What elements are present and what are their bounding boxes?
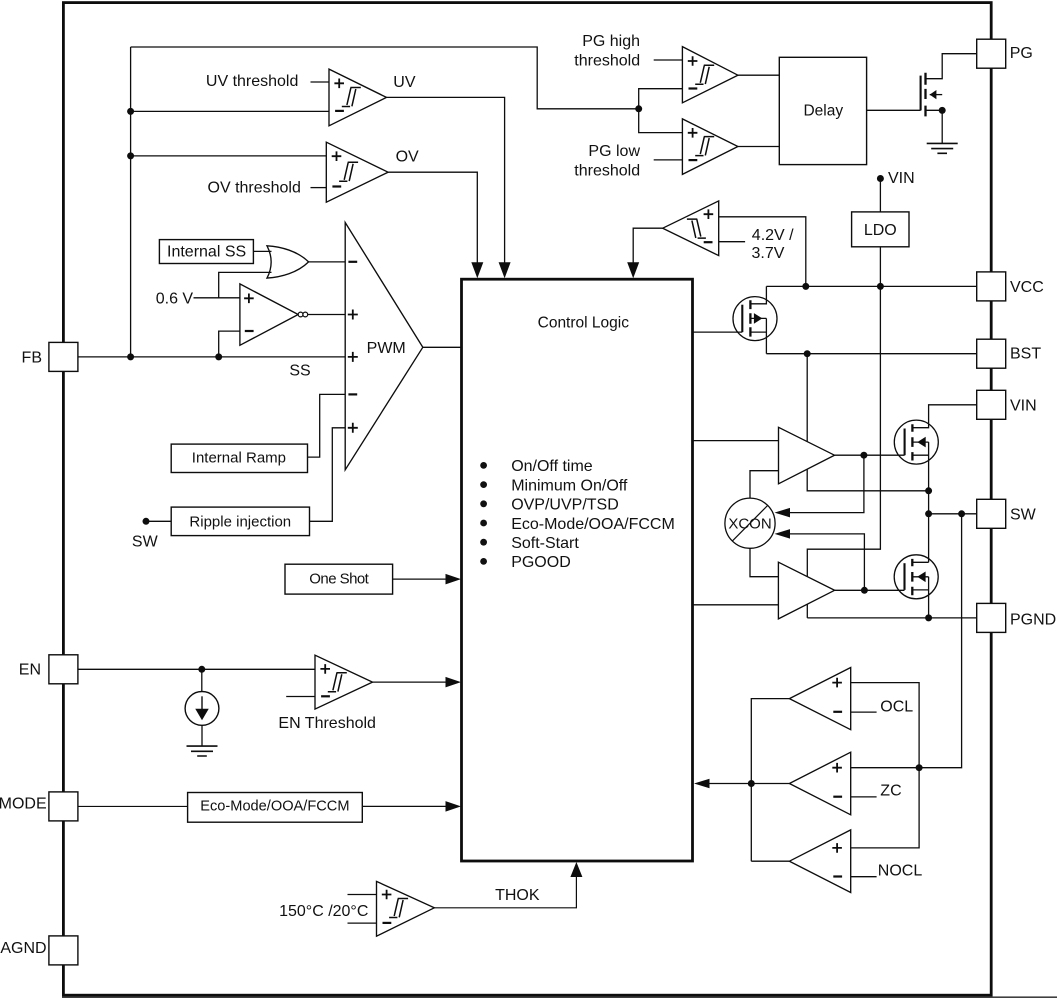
current source circle <box>185 692 219 726</box>
PWM input plus 3 <box>348 352 358 362</box>
svg-text:OV threshold: OV threshold <box>208 179 301 196</box>
OCL minus <box>833 711 842 713</box>
wire SW to Ripple injection <box>146 520 171 522</box>
wire PG high threshold stub <box>654 59 683 61</box>
svg-text:0.6 V: 0.6 V <box>156 290 194 307</box>
node FB amp junction <box>215 353 222 360</box>
wire FB to PWM <box>78 356 345 358</box>
comparator ZC <box>789 752 850 815</box>
thermal comparator minus <box>383 922 392 924</box>
page bottom edge strip <box>62 996 1057 998</box>
wire EN junction to current source <box>201 669 203 691</box>
wire XCON to low driver input <box>750 548 778 576</box>
svg-text:VCC: VCC <box>1010 279 1044 296</box>
node comparator rail junction <box>748 780 755 787</box>
svg-text:Minimum On/Off: Minimum On/Off <box>511 477 628 494</box>
wire SW rail <box>929 513 977 515</box>
current source arrow <box>201 696 203 710</box>
OCL plus <box>832 678 842 688</box>
block Control Logic <box>462 279 693 861</box>
wire thermal plus stub <box>348 894 377 896</box>
svg-text:SS: SS <box>289 363 310 380</box>
wire VCC down to low driver <box>807 286 880 576</box>
svg-text:Internal Ramp: Internal Ramp <box>192 449 286 466</box>
OV comparator minus <box>332 185 341 187</box>
ground below PG FET <box>927 143 958 153</box>
node SW terminal <box>143 518 150 525</box>
node PG input junction <box>635 105 642 112</box>
svg-text:SW: SW <box>1010 506 1037 523</box>
arrow Eco-Mode into control logic <box>446 801 462 812</box>
svg-text:UV: UV <box>393 74 416 91</box>
transistor high-side NFET <box>894 420 938 464</box>
op-amp 0.6V error comparator <box>240 284 298 345</box>
arrow OV into control logic <box>471 262 483 278</box>
wire EN to comparator <box>78 668 315 670</box>
svg-text:Soft-Start: Soft-Start <box>511 535 579 552</box>
svg-text:SW: SW <box>132 533 159 550</box>
wire VCC rail <box>766 285 976 287</box>
wire MODE to Eco-Mode box <box>78 805 188 807</box>
NOCL plus <box>832 843 842 853</box>
wire NOCL plus input <box>851 768 919 848</box>
arrow comparators into control logic <box>694 779 710 789</box>
wire top FB-to-PG run <box>131 47 639 109</box>
svg-text:VIN: VIN <box>888 170 915 187</box>
OV comparator plus <box>332 151 342 161</box>
svg-text:Eco-Mode/OOA/FCCM: Eco-Mode/OOA/FCCM <box>200 799 349 815</box>
node FB/OV junction <box>127 152 134 159</box>
wire junction to PG high minus <box>639 89 683 109</box>
wire PG low output to Delay <box>738 146 779 148</box>
PG low hysteresis symbol <box>695 137 714 156</box>
comparator OCL <box>789 668 850 730</box>
svg-text:NOCL: NOCL <box>878 863 923 880</box>
wire PG low threshold stub <box>654 159 683 161</box>
transistor low-side NFET <box>894 555 938 599</box>
wire THOK to control logic <box>434 872 576 908</box>
node bootstrap to SW node <box>925 487 932 494</box>
wire current source to ground <box>201 725 203 746</box>
node EN junction <box>198 666 205 673</box>
node SW sense junction <box>958 510 965 517</box>
svg-text:PWM: PWM <box>367 340 406 357</box>
4.2V comparator minus <box>704 241 713 243</box>
svg-text:UV threshold: UV threshold <box>206 73 299 90</box>
PG high minus <box>689 87 698 89</box>
wire EN comparator minus stub <box>286 696 315 698</box>
EN comparator hysteresis symbol <box>328 673 347 692</box>
svg-text:VIN: VIN <box>1010 397 1037 414</box>
wire junction to PG low plus <box>639 109 683 133</box>
node FB/UV junction <box>127 108 134 115</box>
pin MODE <box>49 792 78 821</box>
pin PGND <box>977 603 1006 632</box>
PG high plus <box>688 56 698 66</box>
thermal comparator plus <box>382 890 392 900</box>
svg-text:PG high: PG high <box>582 33 640 50</box>
node VCC/4.2V junction <box>802 283 809 290</box>
pin FB <box>49 342 78 371</box>
svg-text:Eco-Mode/OOA/FCCM: Eco-Mode/OOA/FCCM <box>511 516 675 533</box>
ground below current source <box>187 746 218 756</box>
comparator PG high <box>682 47 738 103</box>
arrow UV into control logic <box>499 262 511 278</box>
comparator UV (UV threshold) <box>329 69 387 126</box>
wire bootstrap BST down through driver <box>807 354 928 491</box>
wire OV comparator plus input <box>131 155 327 157</box>
svg-text:3.7V: 3.7V <box>752 245 785 262</box>
svg-text:PGND: PGND <box>1010 612 1056 629</box>
error amp output inversion bubbles <box>298 312 303 317</box>
wire control logic to low driver <box>693 604 779 606</box>
wire EN comparator output <box>373 681 449 683</box>
box Internal SS <box>159 240 253 264</box>
node PGND FET junction <box>925 614 932 621</box>
svg-text:PG low: PG low <box>588 143 640 160</box>
wire comparator output rail <box>751 699 789 862</box>
wire Internal SS to OR gate <box>253 250 271 252</box>
wire ZC minus stub <box>851 796 877 798</box>
box Internal Ramp <box>171 444 307 472</box>
wire BST rail <box>766 353 976 355</box>
pin VIN <box>977 390 1006 419</box>
UV comparator hysteresis symbol <box>342 88 361 107</box>
wire OCL plus input <box>851 683 919 768</box>
svg-text:AGND: AGND <box>0 940 46 957</box>
EN comparator plus <box>320 664 330 674</box>
arrow 4.2V into control logic <box>627 262 639 278</box>
svg-text:Internal SS: Internal SS <box>167 244 246 261</box>
comparator PG low <box>682 119 738 174</box>
wire amp minus from FB <box>219 331 240 357</box>
node SW FET junction <box>925 510 932 517</box>
PG high hysteresis symbol <box>695 65 714 84</box>
ZC minus <box>833 796 842 798</box>
svg-text:OVP/UVP/TSD: OVP/UVP/TSD <box>511 497 619 514</box>
node low driver output junction <box>861 587 868 594</box>
pin VCC <box>977 272 1006 301</box>
list control logic functions <box>480 462 487 469</box>
wire Eco-Mode to control logic <box>362 805 448 807</box>
box Delay <box>779 57 866 164</box>
node ZC plus junction <box>916 764 923 771</box>
driver high-side buffer <box>779 427 835 484</box>
pin SW <box>977 499 1006 528</box>
svg-text:EN Threshold: EN Threshold <box>278 715 376 732</box>
wire comparators to control logic <box>706 783 751 785</box>
wire 0.6V riser to OR gate input <box>219 272 272 297</box>
pin BST <box>977 339 1006 368</box>
UV comparator minus <box>335 110 344 112</box>
node high driver output junction <box>860 452 867 459</box>
error amp plus <box>244 294 254 304</box>
node BST bootstrap junction <box>804 350 811 357</box>
box LDO <box>852 212 909 247</box>
wire low gate node to XCON <box>777 534 864 590</box>
wire OR gate output to PWM minus <box>309 261 346 263</box>
ZC plus <box>832 763 842 773</box>
wire OV output to control logic <box>388 172 477 265</box>
wire SW sense to comparators <box>851 514 962 768</box>
arrow One Shot into control logic <box>446 574 462 585</box>
arrow THOK into control logic <box>570 862 582 877</box>
svg-text:THOK: THOK <box>495 887 540 904</box>
EN comparator minus <box>321 695 330 697</box>
svg-text:Ripple injection: Ripple injection <box>189 513 291 530</box>
thermal comparator hysteresis symbol <box>389 899 408 918</box>
wire LDO to VCC rail <box>879 247 881 287</box>
svg-text:LDO: LDO <box>864 222 897 239</box>
svg-text:Delay: Delay <box>803 102 843 119</box>
node VCC/LDO junction <box>877 283 884 290</box>
UV comparator plus <box>334 79 344 89</box>
svg-text:PGOOD: PGOOD <box>511 554 571 571</box>
wire Delay output to PG FET gate <box>867 109 921 111</box>
4.2V comparator hysteresis symbol <box>687 219 706 238</box>
svg-text:On/Off time: On/Off time <box>511 458 593 475</box>
svg-text:BST: BST <box>1010 345 1041 362</box>
svg-text:XCON: XCON <box>728 515 771 532</box>
PWM input plus 2 <box>348 310 358 320</box>
pin PG <box>977 39 1006 68</box>
comparator NOCL <box>789 830 850 893</box>
transistor PG open-drain NFET <box>920 76 922 111</box>
wire SW down to low FET drain <box>928 514 930 563</box>
comparator OV (OV threshold) <box>326 142 388 202</box>
PWM input minus 1 <box>348 261 357 263</box>
wire high driver output to gate <box>835 454 905 456</box>
svg-text:threshold: threshold <box>574 52 640 69</box>
wire OV threshold input stub <box>311 187 327 189</box>
arrow into XCON upper <box>775 508 791 517</box>
wire UV comparator minus input <box>131 110 329 112</box>
4.2V comparator plus <box>704 209 714 219</box>
wire VCC FET gate from control logic <box>693 331 743 333</box>
svg-text:FB: FB <box>22 349 42 366</box>
wire PG high output to Delay <box>738 74 779 76</box>
svg-text:PG: PG <box>1010 45 1033 62</box>
wire Ripple injection to PWM plus <box>310 428 346 522</box>
wire 4.2V output to control logic <box>633 228 663 265</box>
driver low-side buffer <box>778 562 834 619</box>
svg-text:EN: EN <box>19 662 41 679</box>
comparator PWM <box>345 223 423 470</box>
wire thermal minus stub <box>348 922 377 924</box>
node FB riser junction <box>127 353 134 360</box>
svg-text:150°C /20°C: 150°C /20°C <box>279 903 368 920</box>
wire XCON to high driver input <box>750 471 779 498</box>
wire FB sense riser top <box>130 47 132 357</box>
wire low driver to PGND rail <box>806 604 808 618</box>
wire 4.2V plus input from VCC <box>719 217 806 287</box>
wire VIN to LDO <box>879 179 881 212</box>
error amp minus <box>245 330 254 332</box>
wire PGND rail <box>807 617 976 619</box>
PG low plus <box>688 128 698 138</box>
wire control logic to high driver <box>693 440 779 442</box>
wire amp output to PWM plus <box>308 314 346 316</box>
comparator EN Threshold <box>315 655 373 709</box>
svg-text:4.2V /: 4.2V / <box>752 227 794 244</box>
wire 4.2V minus stub <box>719 241 745 243</box>
XCON crossover block <box>725 498 775 548</box>
box Ripple injection <box>171 507 309 535</box>
wire OCL minus stub <box>851 711 877 713</box>
wire NOCL minus stub <box>851 876 877 878</box>
wire PG FET source to ground <box>941 110 943 143</box>
wire 0.6V to amp plus <box>194 297 240 299</box>
svg-text:OCL: OCL <box>880 699 913 716</box>
wire UV threshold input stub <box>311 81 330 83</box>
wire UV output to control logic <box>387 97 505 265</box>
wire One Shot to control logic <box>393 578 448 580</box>
node VIN terminal <box>877 175 884 182</box>
svg-text:MODE: MODE <box>0 796 47 813</box>
wire high gate node to XCON <box>777 455 864 512</box>
PWM input plus 5 <box>348 423 358 433</box>
arrow into XCON lower <box>775 529 791 539</box>
box One Shot <box>285 564 393 594</box>
comparator 4.2V/3.7V VCC-good <box>663 201 719 256</box>
OR gate <box>267 246 309 278</box>
box Eco-Mode/OOA/FCCM <box>188 793 363 823</box>
wire low driver output to gate <box>835 589 905 591</box>
svg-text:One Shot: One Shot <box>309 571 369 588</box>
pin EN <box>49 655 78 684</box>
comparator thermal 150C/20C <box>377 881 435 936</box>
PWM input minus 4 <box>348 393 357 395</box>
node PG FET source junction <box>939 107 946 114</box>
svg-text:threshold: threshold <box>574 162 640 179</box>
wire PWM output to control logic <box>423 346 462 348</box>
svg-text:Control Logic: Control Logic <box>538 315 630 332</box>
transistor VCC-BST switch PFET <box>733 297 777 341</box>
svg-text:ZC: ZC <box>880 783 901 800</box>
wire Internal Ramp to PWM minus <box>308 394 346 457</box>
NOCL minus <box>833 875 842 877</box>
arrow EN into control logic <box>446 677 462 688</box>
PG low minus <box>689 159 698 161</box>
pin AGND <box>49 936 78 965</box>
OV comparator hysteresis symbol <box>339 162 358 181</box>
svg-text:OV: OV <box>396 149 419 166</box>
